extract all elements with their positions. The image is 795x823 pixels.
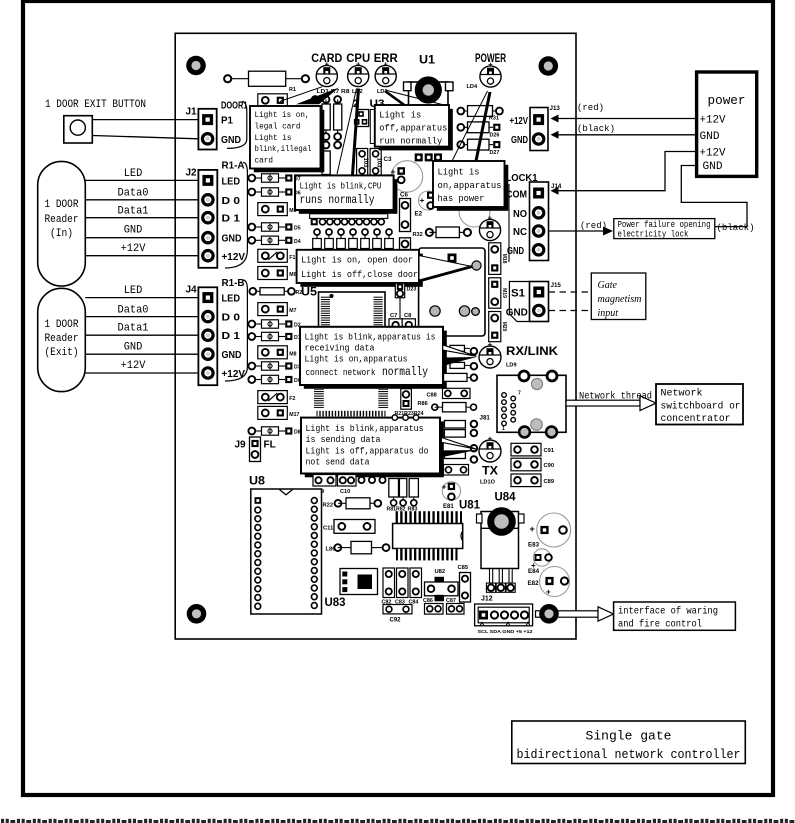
resistor R31: [457, 108, 464, 115]
svg-text:(red): (red): [580, 221, 607, 231]
svg-text:1 DOOR: 1 DOOR: [45, 319, 79, 331]
wire reader-exit LED: [85, 297, 198, 299]
svg-text:SCL SDA GND +5 +12: SCL SDA GND +5 +12: [478, 629, 534, 634]
svg-text:R32: R32: [413, 232, 423, 238]
capacitor C9: [313, 475, 336, 487]
svg-text:(black): (black): [577, 124, 615, 134]
svg-text:C10: C10: [340, 489, 350, 495]
gate magnetism input box: [591, 273, 646, 320]
chip U83: [340, 569, 378, 595]
svg-text:+: +: [530, 524, 535, 534]
svg-text:J9: J9: [235, 440, 247, 451]
svg-text:U8: U8: [249, 476, 266, 488]
svg-text:D8: D8: [294, 430, 301, 436]
diode D26: [457, 124, 464, 131]
wire reader-in +12V: [85, 255, 198, 257]
leader lines LD3: [385, 91, 404, 105]
svg-text:receiving data: receiving data: [305, 343, 375, 354]
svg-text:(black): (black): [717, 223, 755, 233]
exit button S-EXIT: [64, 116, 93, 143]
svg-text:LD1O: LD1O: [480, 480, 496, 486]
callout: err LED meaning: [379, 109, 453, 151]
svg-text:P1: P1: [221, 116, 233, 127]
jumper M1: [258, 94, 288, 107]
svg-text:E81: E81: [443, 504, 454, 510]
svg-text:Light is off,close door: Light is off,close door: [301, 269, 418, 280]
svg-text:J4: J4: [186, 285, 198, 296]
svg-text:on,apparatus: on,apparatus: [438, 180, 502, 191]
svg-text:7: 7: [518, 391, 521, 397]
arrow to J13 +12V: [551, 115, 559, 123]
svg-text:(red): (red): [577, 103, 604, 113]
svg-text:M17: M17: [289, 412, 299, 418]
pad LD1: [312, 96, 319, 103]
svg-text:S1: S1: [511, 288, 525, 300]
diode D23: [395, 283, 404, 298]
svg-text:runs normally: runs normally: [300, 193, 375, 207]
interface of waring box: [614, 602, 736, 630]
svg-text:NO: NO: [513, 208, 527, 220]
svg-text:GND: GND: [700, 131, 720, 143]
arrow into lock box: [603, 227, 613, 236]
mounting hole top-left: [186, 56, 206, 76]
svg-text:F2: F2: [289, 396, 295, 402]
resistor R96: [444, 430, 465, 438]
svg-text:Light is off,apparatus do: Light is off,apparatus do: [306, 445, 429, 456]
svg-text:+12V: +12V: [700, 148, 726, 160]
svg-text:Reader: Reader: [45, 214, 79, 226]
svg-text:bidirectional network controll: bidirectional network controller: [517, 747, 741, 762]
resistor R81: [389, 479, 399, 498]
svg-text:has power: has power: [438, 193, 485, 204]
leader lines LD2->cpu box: [353, 89, 359, 176]
svg-text:D4: D4: [294, 239, 301, 245]
svg-text:interface of waring: interface of waring: [618, 606, 718, 617]
svg-text:R21R23R24: R21R23R24: [395, 411, 424, 417]
svg-text:switchboard or: switchboard or: [661, 401, 741, 413]
svg-text:C8: C8: [404, 313, 412, 319]
svg-text:+12V: +12V: [121, 243, 146, 255]
crystal Y1: [370, 110, 374, 144]
resistor R8: [334, 96, 341, 103]
svg-text:M6: M6: [289, 272, 296, 278]
svg-text:R1-B: R1-B: [222, 278, 245, 289]
svg-text:E83: E83: [528, 542, 540, 549]
mounting hole bottom-left: [187, 604, 207, 624]
connector J1 (DOOR1): [198, 109, 216, 150]
svg-text:GND: GND: [506, 308, 528, 319]
svg-text:R1: R1: [289, 87, 296, 93]
svg-text:electricity lock: electricity lock: [618, 230, 689, 240]
svg-text:D27: D27: [490, 150, 500, 156]
svg-text:U83: U83: [325, 597, 346, 609]
svg-text:(Exit): (Exit): [45, 347, 79, 359]
resistor network RN2 "103": [370, 149, 381, 176]
svg-text:D 1: D 1: [222, 214, 241, 225]
svg-text:Gate: Gate: [598, 280, 618, 291]
resistor R83: [409, 479, 418, 498]
svg-text:D6: D6: [294, 191, 301, 197]
svg-text:J2: J2: [186, 168, 198, 179]
svg-text:Data0: Data0: [118, 188, 149, 200]
connector J2 (R1-A): [198, 170, 217, 268]
network switchboard box: [656, 384, 743, 425]
resistor R33: [400, 238, 411, 262]
svg-text:R86: R86: [418, 401, 428, 407]
capacitor C83: [397, 568, 409, 598]
capacitor C87: [447, 604, 465, 615]
electricity lock box: [614, 219, 715, 239]
jumper M19: [489, 278, 501, 308]
resistor R93: [444, 373, 468, 381]
svg-text:103: 103: [362, 157, 368, 168]
diode D1: [248, 333, 255, 340]
leader wedge LD1->card box: [296, 88, 339, 105]
resistor R95: [444, 421, 465, 429]
svg-text:LD9: LD9: [506, 363, 517, 369]
svg-text:connect network: connect network: [306, 367, 376, 378]
chip U80 pins top: [395, 511, 463, 523]
svg-text:C90: C90: [544, 463, 555, 469]
chip U80 body: [393, 524, 463, 549]
svg-text:C92: C92: [390, 618, 402, 624]
resistor network RN1 "103": [357, 149, 368, 176]
jumper M20: [489, 312, 501, 342]
svg-text:U5: U5: [301, 287, 318, 299]
svg-text:GND: GND: [221, 135, 241, 146]
callout: cpu LED meaning: [299, 179, 398, 214]
leader wedges TX: [441, 438, 476, 450]
svg-text:LD4: LD4: [467, 84, 478, 90]
svg-text:TX: TX: [482, 466, 498, 478]
mounting hole bottom-right: [539, 604, 559, 624]
svg-text:J81: J81: [480, 415, 491, 422]
bracket R1-B group: [225, 280, 247, 381]
svg-text:LED: LED: [124, 168, 143, 180]
svg-text:input: input: [598, 308, 619, 319]
diode D0: [248, 376, 255, 383]
connector J4 (R1-B): [198, 287, 217, 385]
diode D5: [248, 224, 255, 231]
svg-text:J15: J15: [551, 282, 562, 289]
diode D4: [248, 237, 255, 244]
svg-text:C91: C91: [544, 448, 555, 454]
svg-text:+12V: +12V: [121, 360, 146, 372]
capacitor C13: [444, 465, 469, 476]
callout: RX/LINK meaning: [304, 331, 447, 389]
svg-text:U81: U81: [459, 500, 481, 512]
svg-text:M18: M18: [501, 254, 507, 264]
bracket R1-A group: [225, 163, 247, 269]
leader wedges RX: [443, 345, 477, 357]
resistor R7: [323, 96, 330, 103]
svg-text:E84: E84: [528, 568, 540, 575]
leader wedge relay box: [419, 256, 472, 282]
wire LOCK1 NC -> lock box: [549, 230, 603, 232]
diode D27: [457, 141, 464, 148]
1 DOOR Reader (Exit) block: [38, 288, 86, 391]
wire power +12V: [559, 118, 697, 120]
svg-text:is sending data: is sending data: [306, 434, 381, 445]
svg-text:C3: C3: [384, 156, 392, 163]
wire reader-in Data1: [85, 217, 198, 219]
svg-text:R1-A: R1-A: [222, 160, 245, 171]
capacitor E81: [442, 482, 460, 500]
wire power GND: [559, 134, 697, 136]
svg-text:+12V: +12V: [222, 252, 246, 263]
svg-text:J1: J1: [186, 107, 198, 118]
title box: [512, 721, 746, 764]
svg-text:GND: GND: [222, 234, 242, 245]
svg-text:Light is: Light is: [379, 110, 421, 121]
resistor R91: [450, 345, 465, 351]
svg-text:1 DOOR: 1 DOOR: [45, 199, 79, 211]
svg-text:M20: M20: [501, 322, 507, 332]
wire power lower +12V -> LOCK COM: [559, 152, 697, 191]
svg-text:+12V: +12V: [510, 115, 529, 127]
svg-text:Power failure opening: Power failure opening: [618, 220, 711, 230]
wire reader-exit Data1: [85, 334, 198, 336]
svg-text:GND: GND: [124, 342, 143, 354]
electrolytic capacitor E2: [419, 191, 438, 210]
interface arrow: [536, 607, 614, 621]
callout: power LED meaning: [437, 165, 509, 211]
svg-text:D26: D26: [490, 133, 500, 139]
arrow to LOCK1 COM: [551, 187, 559, 195]
svg-text:R22: R22: [323, 503, 334, 509]
via pad: [472, 308, 480, 316]
svg-text:103: 103: [376, 157, 382, 168]
svg-text:RX/LINK: RX/LINK: [506, 346, 559, 358]
svg-text:D 1: D 1: [222, 331, 241, 342]
capacitor C10: [338, 475, 357, 487]
resistor R97: [444, 451, 465, 459]
svg-text:+: +: [420, 195, 425, 205]
resistor R2: [249, 288, 256, 295]
svg-text:FL: FL: [264, 440, 276, 451]
svg-text:GND: GND: [124, 225, 143, 237]
svg-text:1: 1: [502, 426, 505, 432]
svg-text:1 DOOR EXIT BUTTON: 1 DOOR EXIT BUTTON: [45, 99, 146, 111]
svg-text:LED: LED: [222, 294, 241, 305]
svg-text:Network thread: Network thread: [579, 391, 652, 402]
svg-text:Single gate: Single gate: [586, 729, 672, 744]
wire reader-in GND: [85, 237, 198, 239]
capacitor C92: [383, 605, 412, 614]
svg-text:C89: C89: [544, 479, 555, 485]
diode D2: [248, 321, 255, 328]
svg-text:C88: C88: [427, 393, 437, 399]
PCB board outline: [175, 33, 576, 639]
svg-text:C87: C87: [446, 598, 456, 604]
callout: TX meaning: [305, 421, 444, 477]
svg-text:U84: U84: [495, 492, 517, 504]
svg-text:GND: GND: [222, 350, 242, 361]
wire reader-in LED: [85, 179, 198, 181]
callout: card LED meaning: [254, 110, 324, 173]
svg-text:blink,illegal: blink,illegal: [255, 144, 312, 154]
svg-text:Light is blink,CPU: Light is blink,CPU: [300, 181, 382, 192]
svg-text:Light is: Light is: [438, 167, 480, 178]
diode D7: [248, 175, 255, 182]
svg-text:J12: J12: [481, 596, 493, 603]
svg-text:legal card: legal card: [255, 121, 301, 131]
svg-text:+: +: [442, 482, 447, 492]
power box: [697, 72, 757, 176]
resistor R92: [450, 362, 465, 368]
svg-text:power: power: [708, 94, 746, 108]
svg-text:GND: GND: [703, 161, 723, 173]
resistor R1: [231, 78, 249, 80]
diode D6: [248, 189, 255, 196]
svg-text:M7: M7: [289, 308, 296, 314]
svg-text:Network: Network: [661, 388, 703, 400]
svg-text:GND: GND: [507, 245, 524, 257]
svg-text:Data0: Data0: [118, 305, 149, 317]
wire reader-exit Data0: [85, 316, 198, 318]
resistor R9: [323, 142, 330, 149]
svg-text:magnetism: magnetism: [598, 294, 642, 305]
svg-text:J13: J13: [550, 105, 561, 112]
wire button->J1 P1: [92, 119, 198, 121]
svg-text:C86: C86: [423, 598, 433, 604]
svg-text:Light is on,apparatus: Light is on,apparatus: [305, 354, 408, 365]
svg-text:and fire control: and fire control: [618, 619, 702, 630]
svg-text:U82: U82: [435, 569, 446, 575]
mounting hole top-right: [539, 56, 559, 76]
svg-text:C11: C11: [323, 526, 334, 532]
svg-text:E2: E2: [415, 211, 423, 218]
transformer T1: [314, 389, 324, 409]
capacitor C90: [511, 458, 541, 471]
via pads row: [358, 477, 364, 483]
fuse F1: [258, 249, 288, 262]
jumper M7: [258, 303, 288, 316]
svg-text:+12V: +12V: [222, 369, 246, 380]
resistor R82: [399, 479, 406, 498]
svg-text:off,apparatus: off,apparatus: [379, 123, 447, 134]
svg-text:NC: NC: [513, 226, 527, 238]
callout: relay meaning (open/close door): [300, 254, 422, 287]
svg-text:D5: D5: [294, 226, 301, 232]
watermark glyph row: [1, 819, 4, 823]
svg-text:run normally: run normally: [379, 136, 442, 147]
jumper M21: [401, 389, 412, 410]
wire reader-in Data0: [85, 199, 198, 201]
svg-text:D7: D7: [294, 177, 301, 183]
dashed wire GND: [549, 310, 592, 312]
capacitor C84: [410, 568, 422, 598]
svg-text:C85: C85: [458, 565, 469, 571]
svg-text:M5: M5: [289, 208, 296, 214]
svg-text:concentrator: concentrator: [661, 414, 731, 425]
wire reader-exit +12V: [85, 372, 198, 374]
chip U80 pins bottom: [396, 549, 458, 561]
svg-text:Light is on, open door: Light is on, open door: [301, 255, 413, 266]
svg-text:Light is blink,apparatus is: Light is blink,apparatus is: [305, 332, 436, 343]
svg-text:Data1: Data1: [118, 206, 149, 218]
pads D row: [415, 153, 423, 161]
svg-text:+12V: +12V: [700, 115, 726, 127]
capacitor C86: [425, 604, 444, 615]
capacitor E83: [537, 513, 571, 547]
svg-text:Light is: Light is: [255, 133, 292, 143]
wire button->J1 GND: [92, 136, 198, 139]
svg-text:E82: E82: [528, 580, 540, 587]
svg-text:LED: LED: [124, 285, 143, 297]
wire power lower GND -> lock box: [681, 166, 747, 227]
electrolytic capacitor E3: [459, 196, 490, 227]
svg-text:M19: M19: [501, 288, 507, 298]
svg-text:Light is blink,apparatus: Light is blink,apparatus: [306, 423, 424, 434]
svg-text:Reader: Reader: [45, 333, 79, 345]
svg-text:F1: F1: [289, 255, 295, 261]
bracket LOCK1 labels: [508, 184, 510, 262]
svg-text:GND: GND: [511, 134, 528, 146]
svg-text:card: card: [255, 156, 274, 166]
svg-text:C7: C7: [390, 313, 397, 319]
svg-text:M8: M8: [289, 351, 296, 357]
svg-text:D 0: D 0: [222, 196, 241, 207]
svg-text:not send data: not send data: [306, 456, 370, 467]
svg-text:normally: normally: [382, 365, 428, 379]
arrow to J13 GND: [551, 131, 559, 139]
jumper M18: [489, 243, 501, 275]
svg-text:D 0: D 0: [222, 313, 241, 324]
leader lines LD4->power box: [476, 92, 490, 161]
1 DOOR Reader (In) block: [38, 161, 86, 286]
relay K1: [419, 248, 485, 336]
capacitor C89: [511, 474, 541, 487]
pin header P3 (7 pins): [314, 229, 320, 235]
capacitor E84: [533, 549, 550, 566]
svg-text:U1: U1: [419, 53, 435, 67]
svg-text:D23: D23: [407, 287, 417, 293]
capacitor C91: [511, 443, 541, 456]
diode D3: [248, 363, 255, 370]
jumper M17: [258, 406, 288, 419]
fuse F2: [258, 391, 288, 404]
svg-text:+: +: [546, 588, 551, 597]
diode D8: [248, 428, 255, 435]
S1 label plate: [509, 282, 529, 322]
jumper M5: [258, 203, 288, 216]
jumper M8: [258, 346, 288, 359]
pin header strip P2: [310, 214, 388, 219]
svg-text:LED: LED: [222, 176, 241, 187]
network thread arrow: [566, 396, 656, 411]
svg-text:Light is on,: Light is on,: [255, 110, 310, 120]
svg-text:R31: R31: [489, 116, 499, 122]
jumper M6: [258, 267, 288, 280]
svg-text:Data1: Data1: [118, 323, 149, 335]
wire reader-exit GND: [85, 353, 198, 355]
dashed wire S1: [549, 291, 592, 293]
bracket DOOR1 group: [227, 102, 247, 149]
svg-text:(In): (In): [50, 228, 73, 240]
capacitor C82: [383, 568, 395, 598]
